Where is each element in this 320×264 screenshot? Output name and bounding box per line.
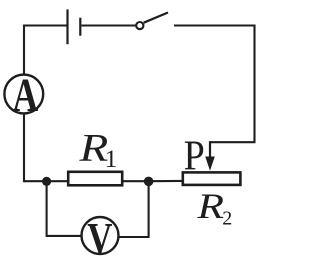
- wire R1 right to junction: [123, 180, 151, 182]
- voltmeter V: [82, 214, 119, 263]
- wire R2 to junction: [150, 180, 183, 182]
- rheostat R2: [183, 172, 241, 185]
- label R2: [196, 186, 232, 230]
- battery: [68, 9, 81, 44]
- svg-text:2: 2: [222, 208, 232, 230]
- junction node left: [42, 177, 51, 186]
- svg-text:R: R: [196, 186, 224, 227]
- resistor R1: [68, 172, 122, 186]
- svg-text:V: V: [87, 214, 112, 263]
- wire right corner to wiper: [210, 141, 256, 143]
- svg-text:1: 1: [105, 146, 118, 173]
- label R1: [78, 126, 117, 173]
- wire top-left corner: [24, 26, 67, 75]
- wiper arrow P: [205, 141, 215, 171]
- switch: [136, 13, 168, 30]
- wire left vertical lower: [23, 114, 25, 183]
- wire left bus: [24, 180, 68, 182]
- wire battery to switch: [81, 24, 136, 26]
- wire voltmeter left lead: [47, 181, 81, 236]
- wire switch to top-right corner down right side: [174, 26, 255, 143]
- svg-text:A: A: [12, 69, 38, 122]
- junction node right: [144, 177, 154, 187]
- ammeter A: [4, 69, 43, 122]
- wire voltmeter right lead: [119, 181, 149, 237]
